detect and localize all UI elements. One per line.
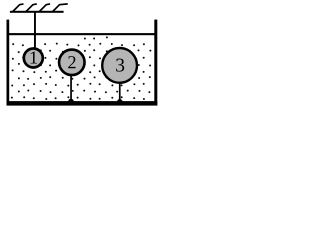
ceiling hatch marks <box>13 4 24 12</box>
ball 2 <box>59 50 85 76</box>
string to ball 3 <box>119 82 121 102</box>
string to ball 2 <box>70 74 72 102</box>
ceiling support <box>10 11 64 13</box>
liquid stipple <box>11 36 152 100</box>
label 1 <box>31 52 37 64</box>
tank left wall <box>7 20 10 106</box>
tank bottom <box>7 101 158 106</box>
liquid surface <box>9 33 156 35</box>
ball 3 <box>102 48 137 83</box>
label 2 <box>68 56 75 68</box>
ball 1 <box>24 49 43 68</box>
string to ball 1 <box>34 13 36 49</box>
tank right wall <box>154 20 157 106</box>
label 3 <box>116 59 124 72</box>
anchor dot of string 3 <box>117 99 123 105</box>
anchor dot of string 2 <box>68 99 74 105</box>
